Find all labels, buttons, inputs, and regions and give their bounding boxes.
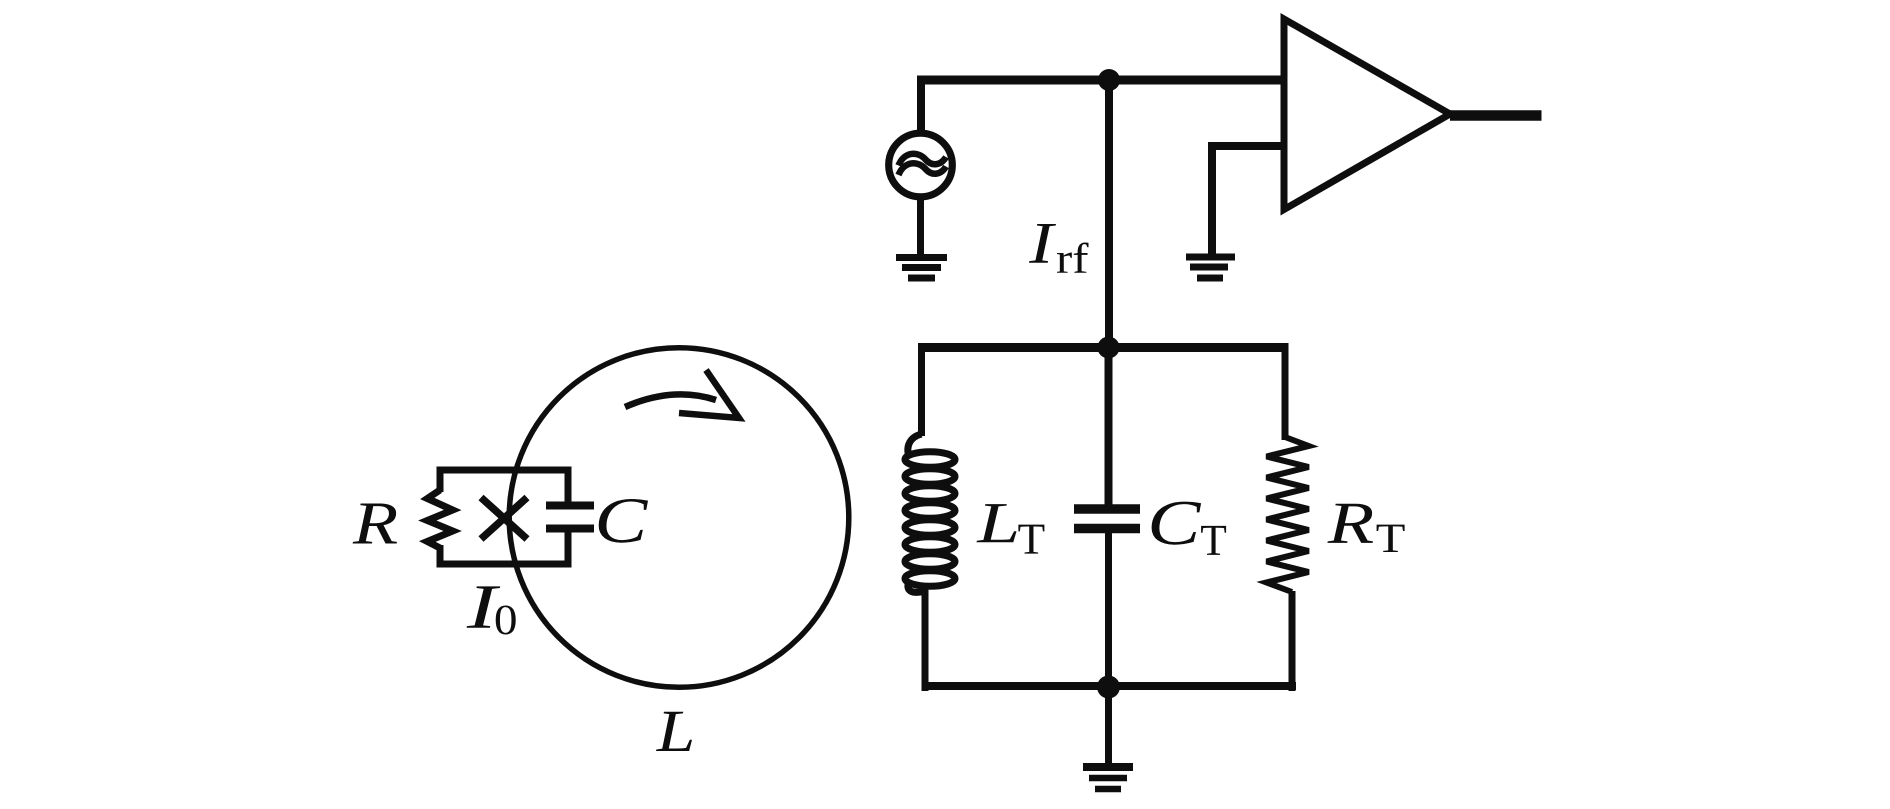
capacitor CT plates bbox=[1074, 504, 1140, 514]
top wire to amplifier bbox=[917, 76, 1287, 85]
wire inductor LT to bottom rail bbox=[922, 589, 929, 691]
junction box right wire segments bbox=[565, 467, 572, 568]
label CT subscript T bbox=[1201, 526, 1226, 555]
junction dot tank top bbox=[1098, 337, 1120, 359]
junction box bottom wire bbox=[437, 561, 572, 568]
RF source wave symbol bbox=[899, 154, 947, 166]
wire RF source to ground bbox=[917, 199, 924, 257]
wire top dot to capacitor CT bbox=[1105, 352, 1113, 506]
Josephson junction X bbox=[481, 498, 527, 540]
tank top rail bbox=[918, 343, 1289, 352]
ground (tank) bbox=[1083, 767, 1133, 789]
label LT subscript T bbox=[1018, 525, 1044, 554]
junction box left wire segments bbox=[437, 467, 444, 568]
inductor LT coil bbox=[905, 434, 955, 592]
ground (amplifier input) bbox=[1186, 257, 1235, 278]
label RT letter R bbox=[1327, 504, 1373, 543]
capacitor C plates bbox=[546, 502, 594, 510]
RF source circle bbox=[889, 133, 953, 197]
wire resistor RT to bottom rail bbox=[1289, 591, 1296, 691]
amplifier output wire bbox=[1450, 110, 1542, 121]
label I0 subscript 0 bbox=[496, 606, 516, 635]
wire amp lower input to ground bbox=[1208, 146, 1284, 257]
label LT letter L bbox=[977, 504, 1017, 542]
wire top rail to inductor LT bbox=[918, 347, 925, 436]
label CT letter C bbox=[1152, 502, 1202, 545]
label Irf subscript rf bbox=[1057, 243, 1089, 273]
tank bottom rail bbox=[922, 682, 1297, 690]
label L bbox=[656, 712, 692, 751]
resistor R (zigzag on left edge) bbox=[427, 490, 452, 548]
ground (RF source) bbox=[896, 258, 947, 279]
SQUID loop inductor L (circle) bbox=[509, 348, 849, 688]
label R bbox=[353, 504, 397, 544]
junction dot top bbox=[1098, 69, 1120, 91]
wire top rail to resistor RT bbox=[1282, 347, 1289, 440]
amplifier triangle bbox=[1284, 19, 1450, 210]
label I0 letter I bbox=[467, 586, 501, 627]
label RT subscript T bbox=[1377, 525, 1405, 552]
wire capacitor CT to bottom dot bbox=[1105, 532, 1112, 683]
label Irf letter I bbox=[1029, 224, 1056, 263]
wire from RF source up to top rail bbox=[917, 80, 925, 132]
vertical wire Irf bbox=[1105, 80, 1113, 352]
wire bottom dot to ground bbox=[1105, 686, 1112, 764]
circulation arrow bbox=[625, 370, 739, 418]
label C bbox=[599, 499, 648, 543]
resistor RT zigzag bbox=[1267, 437, 1309, 592]
junction box top wire bbox=[437, 467, 572, 474]
junction dot tank bottom bbox=[1097, 676, 1120, 699]
